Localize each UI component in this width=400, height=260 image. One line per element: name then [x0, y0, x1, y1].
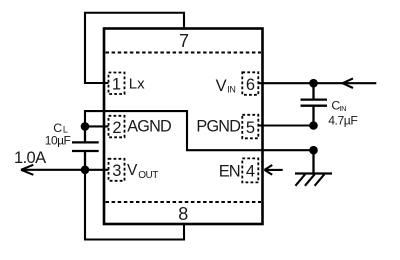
- svg-text:7: 7: [179, 31, 189, 51]
- svg-text:1.0A: 1.0A: [14, 149, 46, 167]
- svg-text:AGND: AGND: [127, 118, 171, 136]
- svg-text:2: 2: [112, 119, 121, 137]
- svg-text:IN: IN: [339, 104, 346, 113]
- svg-text:V: V: [127, 162, 138, 179]
- svg-text:1: 1: [112, 76, 121, 94]
- svg-text:PGND: PGND: [196, 118, 240, 136]
- svg-text:4: 4: [246, 163, 255, 181]
- svg-text:V: V: [216, 77, 227, 95]
- svg-text:5: 5: [246, 119, 255, 137]
- svg-text:EN: EN: [219, 162, 240, 180]
- svg-text:OUT: OUT: [138, 170, 158, 181]
- svg-text:IN: IN: [227, 84, 235, 94]
- svg-text:10µF: 10µF: [45, 133, 71, 147]
- svg-text:4.7µF: 4.7µF: [328, 114, 357, 128]
- svg-text:8: 8: [178, 204, 188, 224]
- svg-text:3: 3: [112, 162, 121, 180]
- svg-text:6: 6: [246, 76, 255, 94]
- svg-text:Lx: Lx: [129, 76, 145, 93]
